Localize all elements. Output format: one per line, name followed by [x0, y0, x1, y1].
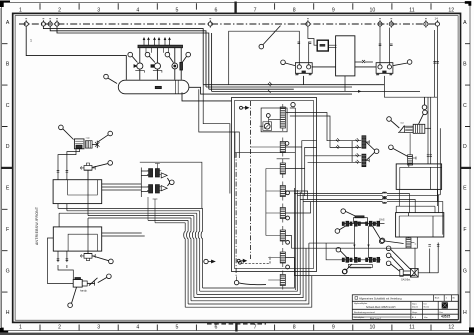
long wire row G	[292, 237, 418, 276]
svg-text:6: 6	[215, 325, 218, 331]
balloon 9	[393, 60, 412, 66]
cylinder C1	[53, 180, 102, 204]
balloon 28	[366, 142, 379, 161]
riser to cyl3	[428, 97, 431, 164]
ticks left margin	[2, 44, 8, 292]
corner crop mark top-right	[465, 1, 472, 6]
svg-text:D: D	[6, 144, 10, 150]
balloon 10	[422, 97, 427, 109]
svg-text:10: 10	[370, 325, 376, 331]
svg-text:11: 11	[409, 7, 414, 13]
svg-text:Schaub-Werk 43525 GmbH: Schaub-Werk 43525 GmbH	[366, 306, 396, 309]
balloon 29	[387, 117, 400, 128]
svg-text:B: B	[6, 61, 10, 67]
gas actuator	[400, 269, 430, 282]
balloon 3	[145, 52, 155, 62]
corner crop mark bottom-left	[0, 328, 8, 333]
svg-text:43525: 43525	[441, 315, 450, 319]
balloon 33	[386, 246, 410, 269]
steering motor assembly	[398, 122, 431, 134]
svg-text:E: E	[6, 186, 10, 192]
coupler bank lower	[361, 154, 369, 166]
manifold bar	[138, 45, 183, 48]
fold dash strip bottom centre	[207, 322, 266, 324]
balloon 5	[182, 52, 191, 63]
svg-text:2: 2	[58, 325, 61, 331]
enclosure box outer	[232, 98, 317, 272]
wire bundle into row F	[309, 243, 355, 260]
svg-text:Datum: Datum	[412, 305, 418, 308]
svg-text:handp.: handp.	[80, 290, 88, 293]
svg-text:Hydraulikplan: Hydraulikplan	[354, 302, 368, 305]
svg-text:6: 6	[215, 7, 218, 13]
valve bank unit 7	[280, 248, 285, 267]
valve bank unit 2	[280, 138, 285, 157]
svg-text:GAS-Bet.: GAS-Bet.	[401, 279, 411, 282]
svg-text:Gepr.: Gepr.	[412, 302, 418, 305]
balloon 14	[167, 178, 174, 186]
break marks valve B wires	[379, 44, 393, 46]
svg-text:1: 1	[19, 7, 22, 13]
balloon 37	[373, 226, 385, 244]
corner crop mark top-left	[0, 1, 10, 8]
scanner edge strip left	[0, 8, 1, 328]
svg-text:F: F	[6, 227, 9, 233]
svg-text:Ers.: Ers.	[440, 311, 444, 314]
svg-text:12: 12	[448, 325, 454, 331]
solenoid valve B	[376, 63, 393, 76]
balloon 7	[259, 26, 281, 49]
node terminal 1	[24, 19, 28, 28]
svg-text:Name: Name	[424, 306, 430, 308]
centre fold mark left	[1, 167, 13, 169]
wires right of cyl2	[102, 233, 145, 236]
break marks cyl2	[57, 259, 68, 261]
balloon 16	[98, 274, 111, 283]
svg-text:4: 4	[136, 325, 139, 331]
valve bank unit 6	[280, 226, 285, 245]
wires cyl3 to cyl4	[387, 189, 443, 234]
svg-text:Blatt: Blatt	[435, 296, 440, 299]
coupler row F upper	[342, 216, 384, 226]
svg-text:Urspr.: Urspr.	[412, 311, 418, 314]
wires to coupler group	[286, 113, 361, 163]
enclosure box inner	[235, 101, 314, 269]
node terminal 9	[424, 19, 428, 28]
svg-text:A: A	[6, 20, 10, 26]
svg-text:Bearbeitungszustand: Bearbeitungszustand	[354, 311, 375, 314]
svg-text:2: 2	[58, 7, 61, 13]
title block row lines	[352, 301, 458, 314]
svg-text:5: 5	[175, 325, 178, 331]
ticks top margin	[40, 3, 431, 9]
balloon 18	[266, 114, 270, 118]
riser elbows upper	[294, 188, 303, 202]
logo box	[442, 302, 448, 308]
mid bundle elbows right	[294, 194, 382, 202]
svg-text:7: 7	[254, 7, 257, 13]
svg-text:4: 4	[136, 7, 139, 13]
control block U1	[336, 36, 355, 76]
svg-text:14: 14	[435, 17, 439, 21]
balloon 27	[342, 270, 346, 274]
wire cyl1 bottom to bundle	[58, 204, 88, 227]
title block column lines	[411, 295, 452, 320]
svg-text:A: A	[463, 20, 467, 26]
balloon 26	[234, 276, 266, 284]
wire tank right	[182, 87, 352, 101]
svg-text:1: 1	[30, 39, 32, 43]
wire block bottom	[212, 76, 345, 92]
node terminal 2	[41, 19, 45, 28]
emergency pump M1	[74, 136, 99, 148]
svg-text:Blatt 1 von 1: Blatt 1 von 1	[370, 317, 382, 320]
wire loop feed	[229, 31, 309, 84]
node terminal 3	[48, 19, 52, 28]
solenoid valve A	[295, 63, 335, 85]
valve bank wires right risers	[285, 141, 316, 276]
wire cyl2 to handpump	[48, 238, 74, 284]
svg-text:B: B	[463, 61, 467, 67]
wire drops to valve B	[380, 28, 389, 65]
valve bank unit 5	[280, 204, 285, 223]
manifold drain arrows	[143, 38, 171, 45]
node terminal 8	[389, 19, 393, 28]
break marks riser cyl3	[427, 155, 432, 157]
balloon 17	[68, 287, 77, 307]
wire bundle to centre	[203, 33, 384, 91]
pump P3	[172, 48, 178, 80]
ticks bottom margin	[40, 325, 431, 331]
wires pump to cyl1	[58, 149, 80, 180]
tank return riser	[290, 108, 296, 290]
wire from terminal2 bundle	[43, 28, 208, 90]
svg-text:GAS: GAS	[379, 217, 385, 221]
coupler bank upper	[361, 136, 369, 148]
svg-text:F: F	[463, 227, 466, 233]
svg-text:H: H	[463, 310, 467, 316]
pump P1	[134, 48, 144, 80]
coupler row F lower	[342, 257, 381, 267]
balloon 40	[341, 209, 355, 216]
balloon 2	[128, 52, 138, 62]
balloon 6 tank	[104, 74, 117, 83]
scanner edge strip bottom	[0, 333, 474, 335]
title block text lines	[355, 297, 358, 300]
coil bundle verticals	[185, 208, 202, 307]
svg-text:Schaltplan: Schaltplan	[354, 316, 365, 319]
break marks far right risers	[428, 245, 439, 247]
balloon 12	[98, 131, 112, 142]
right riser pair	[435, 28, 438, 98]
wire break marks	[268, 82, 272, 93]
node terminal 5	[208, 19, 212, 28]
node terminal 10	[435, 17, 440, 28]
tank T1	[118, 80, 189, 94]
hand pump H1	[73, 278, 97, 288]
hose coils right group	[382, 192, 386, 203]
centre fold mark right	[461, 167, 472, 169]
break marks coupler wires	[336, 138, 359, 164]
balloon 13	[93, 161, 113, 168]
balloon 23	[286, 240, 290, 244]
chain line lower	[235, 153, 237, 277]
balloon 39	[343, 264, 352, 274]
valve bank unit 1	[280, 104, 285, 131]
balloon 20	[285, 142, 289, 146]
balloon 35	[386, 261, 399, 271]
wires right of block	[355, 62, 376, 67]
balloon 8	[281, 60, 295, 66]
balloon 30	[419, 110, 428, 124]
svg-text:Allgemeines Schaltbild mit Ver: Allgemeines Schaltbild mit Verteilung	[359, 296, 402, 300]
arrows inter-row	[353, 245, 369, 248]
risers far right	[430, 97, 441, 273]
balloon 34	[386, 253, 403, 270]
balloon 32	[380, 238, 403, 243]
dashed pilot line	[239, 256, 271, 264]
title block outline	[352, 295, 458, 320]
cylinder C3	[396, 164, 441, 190]
svg-text:8: 8	[293, 7, 296, 13]
valve V10 on cyl1	[81, 163, 96, 180]
inlet symbol bottom	[237, 259, 246, 262]
svg-text:G: G	[463, 268, 467, 274]
svg-text:mot: mot	[400, 122, 404, 125]
gauge sub-box	[261, 108, 287, 132]
balloon 24	[286, 265, 290, 269]
svg-text:3: 3	[97, 325, 100, 331]
svg-text:E: E	[463, 186, 467, 192]
svg-text:D: D	[463, 144, 467, 150]
svg-text:12: 12	[448, 7, 454, 13]
valve V12	[408, 133, 416, 165]
valve V11 under cyl2	[81, 251, 96, 261]
inlet symbol top	[240, 106, 249, 109]
bottom nested elbows	[185, 194, 312, 308]
svg-text:8: 8	[293, 325, 296, 331]
chain line vertical	[249, 101, 251, 259]
stub lines below bar	[146, 48, 169, 53]
centre fold mark bottom	[235, 323, 237, 332]
pump P2	[151, 48, 162, 80]
balloon 4	[165, 52, 173, 63]
valve bank unit 3	[280, 159, 285, 178]
balloon 19	[291, 102, 295, 106]
balloon 21	[286, 191, 290, 195]
svg-text:11: 11	[409, 325, 414, 331]
wire valve B down	[384, 76, 437, 97]
svg-text:ANTRIEBSW./FRONT: ANTRIEBSW./FRONT	[35, 207, 39, 245]
balloon 38	[336, 247, 346, 257]
svg-text:10: 10	[370, 7, 376, 13]
centre fold mark top	[234, 2, 236, 14]
svg-text:9: 9	[332, 7, 335, 13]
ticks right margin	[465, 44, 470, 292]
inter-row wires	[354, 226, 368, 258]
gauge G1	[260, 118, 272, 131]
svg-text:Bl.: Bl.	[453, 297, 456, 299]
svg-text:C: C	[6, 103, 10, 109]
wire from terminal1	[26, 28, 126, 80]
arrow on block bottom wire	[358, 90, 362, 93]
corner crop mark bottom-right	[469, 327, 474, 332]
balloon 25 arrow	[204, 259, 215, 263]
pilot box	[317, 40, 336, 51]
svg-text:1: 1	[19, 325, 22, 331]
balloon 36	[335, 226, 346, 233]
wires right of cyl1	[102, 184, 142, 190]
balloon 15	[93, 256, 114, 264]
svg-text:3: 3	[97, 7, 100, 13]
valve bank unit 8	[280, 271, 285, 290]
valve V13	[406, 237, 417, 248]
svg-text:9: 9	[332, 325, 335, 331]
break marks right riser	[433, 62, 438, 64]
feed wires into box	[199, 85, 240, 194]
cylinder C2	[53, 227, 101, 251]
filter F1	[180, 48, 183, 80]
balloon 31	[389, 145, 408, 156]
svg-text:7: 7	[254, 325, 257, 331]
svg-text:G: G	[6, 268, 10, 274]
title block inner row line	[352, 316, 411, 318]
balloon 22	[286, 216, 290, 220]
node terminal 7	[378, 19, 382, 28]
node terminal 6	[306, 19, 317, 45]
node terminal 4	[55, 19, 59, 28]
break marks cyl1 wires	[57, 171, 68, 173]
check valve group K1	[140, 162, 202, 223]
svg-text:C: C	[463, 103, 467, 109]
cylinder C4	[396, 213, 444, 237]
break marks valve A wires	[298, 42, 312, 44]
svg-text:5: 5	[175, 7, 178, 13]
svg-text:H: H	[6, 310, 10, 316]
wire gas to risers	[430, 272, 439, 274]
bus chain line	[19, 23, 437, 25]
valve bank unit 4	[280, 182, 285, 201]
balloon 11 motor pump	[59, 125, 74, 139]
svg-text:Der: Der	[424, 302, 428, 305]
x mark on wire	[362, 60, 365, 63]
hose coils	[184, 231, 203, 238]
valve bank wires left	[235, 119, 296, 280]
